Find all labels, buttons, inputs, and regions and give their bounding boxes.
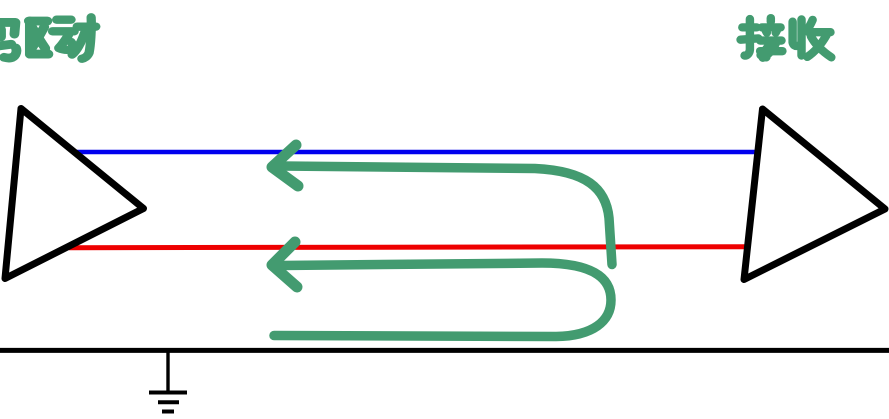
green arrowhead 1: [272, 145, 298, 186]
char 接: 妾 part: [760, 18, 782, 58]
char 驱: 马 radical (cut at left edge): [0, 22, 16, 58]
ground plane wire: [0, 348, 889, 353]
label 接收 (receiver): [741, 18, 832, 58]
char 收: 丩 part: [793, 19, 802, 55]
char 动: [53, 17, 96, 58]
green arrowhead 2: [272, 242, 297, 287]
green return current path 2 (under red wire, U-turn to ground plane): [274, 263, 611, 337]
wire: blue signal trace: [72, 150, 758, 155]
char 收: 攵 part: [807, 20, 831, 57]
ground symbol: [149, 351, 187, 412]
char 驱: 区 part: [29, 21, 49, 54]
wire: red return trace: [69, 247, 745, 248]
label 驱动 (driver): [0, 17, 96, 58]
receiver triangle (right buffer): [744, 109, 885, 280]
char 接: 扌 radical: [741, 19, 759, 56]
green return current path 1 (under blue wire, curving down past red): [281, 166, 612, 265]
driver triangle (left buffer): [5, 109, 144, 279]
